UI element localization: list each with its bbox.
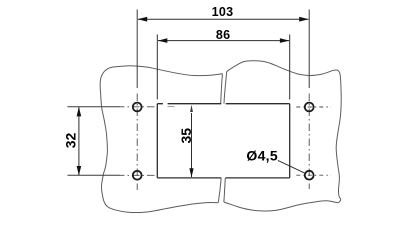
centerline horizontal top-left row (68, 106, 121, 108)
svg-text:35: 35 (178, 128, 194, 144)
panel outline right part (224, 61, 341, 211)
svg-text:86: 86 (216, 28, 231, 42)
dimension line 32 (78, 107, 80, 175)
break line top left (221, 74, 223, 104)
break line top right (224, 72, 227, 104)
centerline horizontal bottom-left row (68, 174, 121, 176)
svg-text:Ø4,5: Ø4,5 (246, 147, 278, 163)
dimension line 86 (158, 40, 289, 42)
hole bottom-left (133, 171, 142, 180)
centerline vertical left column (136, 10, 138, 89)
svg-text:103: 103 (212, 5, 234, 19)
extension line 86 left (156, 35, 158, 100)
svg-text:32: 32 (63, 133, 79, 149)
centerline horizontal top-right row (296, 106, 331, 108)
panel outline left part (100, 66, 222, 213)
dimension line 35 (191, 108, 193, 111)
leader line for hole diameter (278, 160, 305, 173)
break line bottom left (218, 178, 221, 203)
hole top-left (133, 103, 142, 112)
hole bottom-right (305, 171, 314, 180)
cutout rectangle (157, 104, 289, 178)
dimension line 103 (138, 18, 308, 20)
centerline vertical right column (308, 10, 310, 89)
break line bottom right (224, 178, 225, 202)
extension line 86 right (289, 35, 291, 100)
hole top-right (305, 103, 314, 112)
centerline horizontal bottom-right row (296, 174, 331, 176)
